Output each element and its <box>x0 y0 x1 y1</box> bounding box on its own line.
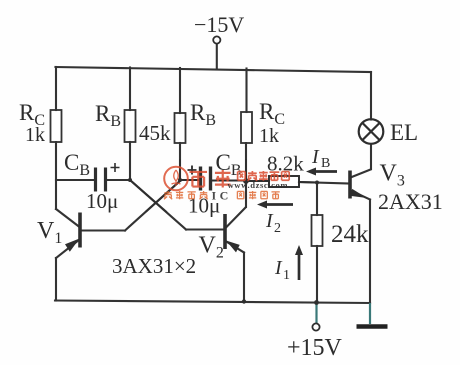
wire: to V2 base bar <box>186 228 224 230</box>
capacitor CB2 plates <box>201 167 211 191</box>
wire: V1 base bar to diagonal start <box>81 229 125 231</box>
current arrow I2 <box>257 201 293 209</box>
current arrow IB <box>306 168 337 176</box>
watermark white halo band <box>164 167 289 191</box>
V1 emitter diagonal <box>56 240 80 259</box>
svg-text:www.dzsc.com: www.dzsc.com <box>228 180 289 190</box>
V3 collector diagonal <box>351 170 371 178</box>
wire (re-ink): cross diagonal to V2 base <box>130 180 166 212</box>
watermark logo circle <box>164 167 188 191</box>
transistor V1 base bar <box>78 213 82 248</box>
+15V terminal circle <box>312 323 319 330</box>
resistor RC1 body <box>51 110 62 142</box>
transistor V3 base bar <box>348 171 352 199</box>
watermark chars (dianzishichangwang) <box>238 171 290 181</box>
wire: node to 8.2k resistor <box>246 180 269 182</box>
resistor RB2 body <box>175 113 186 143</box>
svg-text:24k: 24k <box>331 221 369 248</box>
capacitor CB2 plus sign (re-ink) <box>188 166 197 175</box>
wire (re-ink): 8.2k to 24k node <box>299 181 317 184</box>
junction dot: RB2 node <box>178 178 182 182</box>
teal stub: bottom rail to +15V terminal <box>315 303 317 324</box>
left rail upper (RC1 branch) <box>55 67 57 110</box>
V2 emitter diagonal <box>226 241 245 253</box>
svg-text:1: 1 <box>283 268 290 283</box>
resistor 8.2k body <box>269 176 299 187</box>
resistor 8.2k body (re-ink) <box>269 176 299 187</box>
svg-text:1k: 1k <box>25 124 45 146</box>
lamp branch from top rail <box>370 72 372 120</box>
RB1 branch from top rail <box>129 68 131 111</box>
V2 collector diagonal <box>226 208 246 229</box>
junction dot: 24k node <box>315 181 319 185</box>
wire: 8.2k to V3 base <box>299 182 350 184</box>
wire: cross-coupling diagonal CB1/RB1 node to V2 base <box>130 180 186 230</box>
wire: CB1 right plate to RB1 node <box>107 179 130 181</box>
wire (re-ink): node to 8.2k resistor <box>246 180 269 182</box>
V3 emitter diagonal <box>351 191 371 200</box>
left rail lower to bottom corner <box>55 258 57 301</box>
svg-text:I: I <box>265 210 274 232</box>
capacitor CB1 plates <box>96 168 106 192</box>
svg-text:−15V: −15V <box>194 12 244 37</box>
RC2 lower lead to node and V2 collector bend <box>245 143 247 207</box>
wire (re-ink): RB2 node to CB2 left plate <box>181 179 199 181</box>
svg-text:3AX31×2: 3AX31×2 <box>112 254 196 278</box>
svg-text:I: I <box>274 257 283 279</box>
capacitor CB2 plates (re-ink) <box>201 167 211 191</box>
transistor V2 base bar <box>223 214 227 249</box>
svg-text:1k: 1k <box>259 125 279 147</box>
watermark big chars (weiku) <box>189 170 230 188</box>
svg-text:+15V: +15V <box>287 335 343 361</box>
teal stub: ground lead below rail <box>369 303 371 324</box>
wire: CB2 right plate to RC2 rail node <box>212 179 247 181</box>
capacitor CB2 plus sign <box>188 166 197 175</box>
RB2 lower lead <box>179 143 181 180</box>
svg-text:45k: 45k <box>139 121 171 145</box>
wire (re-ink): RC2 lower lead <box>245 160 247 181</box>
wire (re-ink): CB2 right plate to RC2 rail node <box>212 180 247 182</box>
junction dot: RB1 node <box>128 178 132 182</box>
bottom rail <box>55 301 370 304</box>
svg-text:2AX31: 2AX31 <box>378 189 443 214</box>
svg-text:2: 2 <box>274 221 281 236</box>
transistor V3 emitter arrowhead (points outward) <box>351 189 368 198</box>
RB2 branch from top rail <box>179 68 181 113</box>
V1 collector diagonal <box>56 209 80 227</box>
svg-text:EL: EL <box>390 120 418 145</box>
junction dot: V2 emitter at bottom rail <box>242 299 246 303</box>
transistor V1 emitter arrowhead (PNP, points to bar) <box>65 239 80 252</box>
-15V terminal stub <box>216 44 218 70</box>
wire (re-ink): RB2 lower lead <box>179 160 181 180</box>
svg-text:I: I <box>311 146 320 168</box>
lamp EL lower lead to V3 collector <box>370 144 372 169</box>
V3 emitter lead down to ground <box>369 200 371 304</box>
capacitor CB1 plus sign <box>111 163 120 172</box>
resistor 24k body <box>312 215 323 246</box>
top supply rail <box>56 67 372 72</box>
junction dot: +15V node at bottom rail <box>314 300 319 305</box>
V2 emitter lead to bottom rail <box>243 253 245 303</box>
wire: cross-coupling diagonal V1 base to RB2 node <box>125 180 181 231</box>
resistor RC2 body <box>241 112 252 143</box>
24k lower lead to bottom rail <box>316 246 318 302</box>
junction dot: CB2/8.2k node (re-ink) <box>243 178 249 184</box>
24k upper lead from base wire <box>316 183 318 216</box>
resistor RB1 body <box>125 110 136 142</box>
left rail below RC1 down to V1 collector bend <box>55 142 57 209</box>
ground symbol <box>357 324 388 329</box>
wire: V1 collector node to CB1 left plate <box>56 179 94 181</box>
watermark row2 chars (quanqiu zuida IC caigou wangzhan) <box>164 189 280 203</box>
RC2 branch from top rail <box>245 69 247 113</box>
transistor V2 emitter arrowhead (PNP, points to bar) <box>226 241 240 253</box>
svg-text:IC: IC <box>212 189 232 203</box>
lamp EL circle with cross <box>359 119 384 144</box>
RB1 lower lead <box>129 142 131 180</box>
wire: RB2 node to CB2 left plate <box>181 179 199 181</box>
svg-text:10μ: 10μ <box>86 189 118 213</box>
svg-text:B: B <box>321 156 330 171</box>
wire (re-ink): cross diagonal to RB2 node <box>147 180 182 211</box>
junction dot: CB2/8.2k node <box>243 178 249 184</box>
current arrow I1 <box>295 245 303 280</box>
-15V terminal circle <box>213 36 220 43</box>
